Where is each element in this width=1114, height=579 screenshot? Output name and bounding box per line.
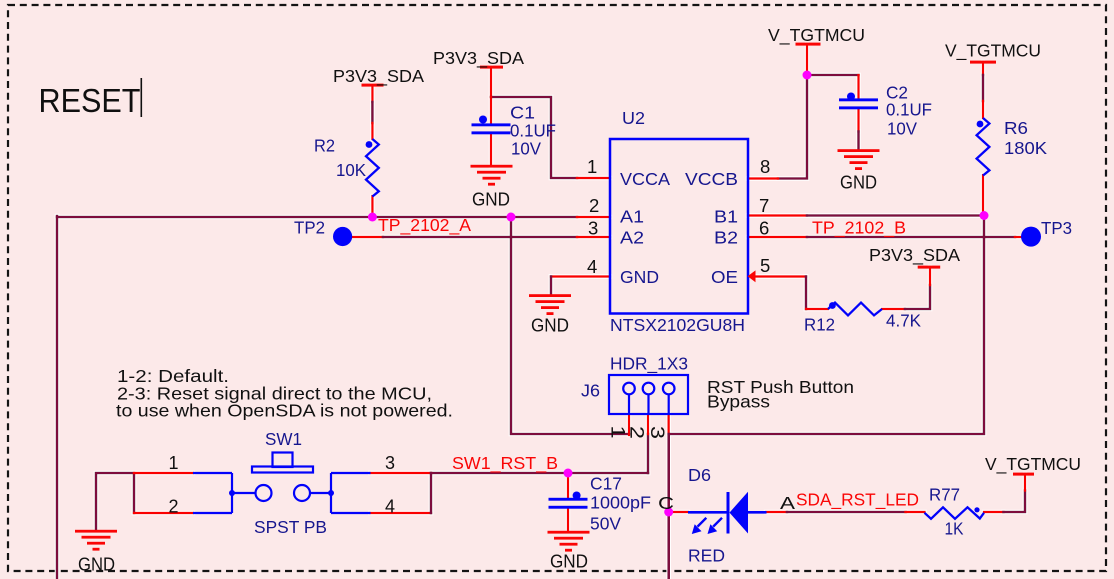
- wire red stub D6 cathode: [669, 511, 688, 513]
- resistor R6: [977, 118, 990, 176]
- svg-text:1: 1: [169, 453, 179, 473]
- svg-text:NTSX2102GU8H: NTSX2102GU8H: [610, 315, 745, 335]
- wire net TP_2102_A horizontal rail: [57, 216, 577, 219]
- svg-text:3: 3: [646, 426, 667, 439]
- wire red stub U2 pin 6: [748, 236, 807, 238]
- wire red SW1 pin 3: [371, 472, 432, 474]
- svg-text:RED: RED: [688, 546, 725, 566]
- wire red stub at TP2: [352, 236, 383, 238]
- svg-text:HDR_1X3: HDR_1X3: [610, 354, 688, 375]
- wire red C1 top lead: [490, 97, 492, 124]
- wire red stub V_TGTMCU power at R77: [1024, 474, 1026, 491]
- svg-text:0.1UF: 0.1UF: [510, 121, 556, 141]
- wire R2 top middle segment: [371, 102, 374, 123]
- junction V_TGTMCU at C2: [803, 71, 812, 80]
- capacitor C17: [549, 492, 588, 509]
- junction TP_2102_B at R6: [980, 211, 989, 220]
- comment RST Push Button Bypass: [707, 377, 854, 412]
- svg-text:RESET: RESET: [39, 82, 141, 119]
- svg-text:D6: D6: [688, 465, 711, 485]
- wire C1 node to U2 pin VCCA: [491, 97, 577, 178]
- wire red C2 top lead: [857, 75, 859, 99]
- wire net SDA_RST_LED: [787, 511, 906, 514]
- svg-text:10V: 10V: [887, 119, 917, 139]
- svg-text:10V: 10V: [511, 139, 541, 159]
- wire net SW1_RST_B horizontal: [431, 472, 648, 475]
- wire TP2 to U2 pin A2: [383, 236, 577, 239]
- svg-text:3: 3: [385, 453, 395, 473]
- svg-text:6: 6: [759, 218, 769, 239]
- wire left vertical rail to sheet bottom: [56, 216, 59, 579]
- wire R77 up to V_TGTMCU power: [1004, 491, 1026, 513]
- wire C2 to GND: [857, 132, 860, 151]
- wire U2 GND drop: [550, 277, 553, 296]
- svg-text:2: 2: [626, 426, 647, 439]
- transistor SW1 push button symbol: [193, 453, 371, 514]
- wire V_TGTMCU down to U2 pin VCCB: [778, 75, 807, 179]
- svg-text:5: 5: [760, 255, 770, 276]
- junction TP_2102_A at R2: [368, 213, 377, 222]
- svg-text:VCCA: VCCA: [620, 169, 670, 189]
- svg-text:P3V3_SDA: P3V3_SDA: [433, 48, 524, 69]
- wire red SW1 pin 4: [371, 512, 432, 514]
- svg-text:R77: R77: [929, 485, 960, 505]
- wire red stub P3V3_SDA power at C1: [490, 67, 492, 97]
- wire J6 pin 2 drop: [647, 434, 650, 473]
- wire U2 pin B2 to TP3: [807, 236, 1015, 239]
- svg-text:SW1_RST_B: SW1_RST_B: [452, 453, 558, 474]
- wire red into R6: [982, 101, 984, 118]
- wire red stub to U2 pin A1: [577, 216, 610, 218]
- ground symbol at C17: [548, 531, 590, 552]
- wire red C1 bottom lead to GND: [490, 134, 492, 166]
- wire red C17 bottom lead to GND: [567, 509, 569, 532]
- svg-text:3: 3: [588, 218, 598, 239]
- svg-text:VCCB: VCCB: [685, 169, 738, 189]
- svg-text:R6: R6: [1004, 118, 1028, 138]
- wire red SW1 pin 2: [134, 512, 193, 514]
- wire red stub U2 pin 3: [577, 236, 610, 238]
- svg-text:R12: R12: [804, 315, 835, 335]
- svg-text:V_TGTMCU: V_TGTMCU: [768, 25, 865, 46]
- op-amp U2 body: [610, 139, 748, 314]
- svg-text:180K: 180K: [1004, 138, 1047, 158]
- svg-text:C: C: [658, 493, 674, 513]
- junction TP_2102_A at J6 drop: [507, 213, 516, 222]
- svg-text:4.7K: 4.7K: [886, 311, 921, 331]
- svg-text:OE: OE: [711, 267, 738, 287]
- wire red stub R2 top power: [371, 85, 373, 102]
- wire red stub P3V3_SDA power at R12: [929, 267, 931, 285]
- test point TP2: [333, 227, 352, 246]
- junction SW1_RST_B at C17: [564, 469, 573, 478]
- wire red stub D6 anode: [766, 511, 787, 513]
- svg-text:J6: J6: [581, 381, 600, 401]
- ground symbol at C2: [838, 149, 880, 170]
- wire SW1 pins 1-2 to GND: [96, 473, 134, 530]
- wire red stub U2 pin 7: [748, 214, 807, 216]
- ground symbol at C1: [471, 165, 513, 186]
- svg-text:GND: GND: [78, 555, 115, 575]
- svg-text:2: 2: [169, 497, 179, 517]
- wire red stub R2 bottom: [371, 196, 373, 217]
- svg-text:C1: C1: [510, 103, 535, 123]
- svg-text:SDA_RST_LED: SDA_RST_LED: [796, 490, 919, 511]
- test point TP3: [1021, 227, 1041, 247]
- svg-text:10K: 10K: [336, 160, 366, 180]
- power symbol V_TGTMCU at R77: [1013, 473, 1034, 476]
- svg-text:B1: B1: [714, 207, 738, 227]
- svg-text:4: 4: [385, 497, 395, 517]
- svg-text:TP_2102_B: TP_2102_B: [812, 218, 906, 239]
- svg-text:B2: B2: [714, 228, 738, 248]
- svg-text:2: 2: [589, 195, 599, 216]
- svg-text:A1: A1: [620, 207, 644, 227]
- ground symbol at SW1: [75, 530, 117, 551]
- svg-text:to use when OpenSDA is not pow: to use when OpenSDA is not powered.: [116, 401, 453, 421]
- resistor R2: [366, 139, 379, 197]
- wire red stub U2 pin 1: [577, 177, 610, 179]
- svg-text:A: A: [780, 493, 795, 513]
- ground symbol at U2 pin 4: [529, 294, 571, 315]
- wire TP_2102_A down to header J6 pin 1: [511, 217, 629, 434]
- svg-text:A2: A2: [620, 228, 644, 248]
- svg-text:7: 7: [759, 195, 769, 216]
- svg-text:SW1: SW1: [265, 429, 302, 449]
- svg-text:1K: 1K: [945, 519, 964, 539]
- wire red stub V_TGTMCU power at C2: [806, 44, 808, 75]
- wire red out of R12 right: [882, 308, 905, 310]
- wire red C17 top lead: [567, 473, 569, 499]
- power symbol V_TGTMCU at R6: [970, 61, 996, 64]
- wire R12 up to P3V3_SDA power: [905, 285, 930, 309]
- svg-text:SPST PB: SPST PB: [254, 517, 327, 537]
- wire OE drop to R12: [805, 277, 808, 310]
- svg-text:R2: R2: [314, 136, 335, 156]
- svg-text:GND: GND: [550, 552, 588, 572]
- wire V_TGTMCU branch to C2: [807, 74, 859, 77]
- power symbol V_TGTMCU at C2: [796, 43, 821, 46]
- svg-text:GND: GND: [840, 173, 877, 193]
- connector J6 body HDR_1X3: [609, 375, 688, 414]
- wire red stub J6 pin 1: [628, 414, 630, 435]
- svg-text:U2: U2: [622, 108, 645, 128]
- svg-text:GND: GND: [472, 190, 510, 210]
- wire red R6 bottom lead: [982, 175, 984, 216]
- svg-text:GND: GND: [620, 267, 659, 287]
- svg-text:V_TGTMCU: V_TGTMCU: [985, 454, 1081, 475]
- power symbol P3V3_SDA at R2: [362, 84, 384, 87]
- wire red U2 pin 4 GND lead: [551, 275, 610, 277]
- wire red stub J6 pin 2: [647, 414, 649, 434]
- wire red out of R77 right: [984, 511, 1004, 513]
- wire red into R12 left: [806, 308, 828, 310]
- power symbol P3V3_SDA at C1: [480, 66, 503, 69]
- wire red stub U2 pin 8: [748, 177, 778, 179]
- wire red stub J6 pin 3: [668, 414, 670, 435]
- title text cursor: [141, 78, 143, 117]
- svg-text:TP_2102_A: TP_2102_A: [378, 215, 471, 236]
- wire R6 top middle segment: [982, 75, 985, 101]
- capacitor C1: [472, 116, 511, 135]
- wire red stub at TP3: [1015, 236, 1021, 238]
- wire red U2 pin 5 OE lead: [756, 275, 806, 277]
- wire net TP_2102_B to R6 junction: [807, 214, 984, 217]
- svg-text:50V: 50V: [590, 514, 621, 534]
- svg-text:TP3: TP3: [1041, 218, 1072, 238]
- U2 pin 5 OE input arrow: [748, 270, 756, 282]
- capacitor C2: [839, 93, 878, 110]
- wire TP_2102_B down to header J6 pin 3: [669, 216, 984, 435]
- svg-text:0.1UF: 0.1UF: [886, 100, 932, 120]
- wire red into R2: [371, 123, 373, 139]
- resistor R77: [925, 507, 985, 519]
- svg-text:P3V3_SDA: P3V3_SDA: [869, 245, 960, 266]
- junction D6 cathode node: [664, 508, 673, 517]
- note text block: [116, 366, 453, 421]
- diode D6 LED: [688, 492, 767, 534]
- wire red SW1 pin 1: [134, 472, 193, 474]
- svg-text:V_TGTMCU: V_TGTMCU: [945, 41, 1041, 62]
- svg-text:1: 1: [607, 426, 628, 439]
- wire red into R77 left: [906, 511, 925, 513]
- svg-text:1000pF: 1000pF: [590, 493, 651, 513]
- svg-text:8: 8: [760, 156, 770, 177]
- power symbol P3V3_SDA at R12: [918, 266, 941, 269]
- wire SW1 pins 3-4 tie: [430, 473, 433, 513]
- svg-text:TP2: TP2: [294, 218, 325, 238]
- svg-text:P3V3_SDA: P3V3_SDA: [333, 66, 424, 87]
- svg-text:Bypass: Bypass: [707, 392, 770, 412]
- resistor R12: [828, 303, 882, 316]
- svg-text:1: 1: [587, 156, 597, 177]
- wire red C2 bottom lead: [857, 109, 859, 132]
- wire red stub V_TGTMCU power at R6: [982, 62, 984, 75]
- svg-text:4: 4: [587, 256, 597, 277]
- svg-text:GND: GND: [531, 316, 569, 336]
- wire J6 pin 3 down to D6 cathode and sheet bottom: [667, 434, 670, 579]
- svg-text:C17: C17: [590, 474, 622, 494]
